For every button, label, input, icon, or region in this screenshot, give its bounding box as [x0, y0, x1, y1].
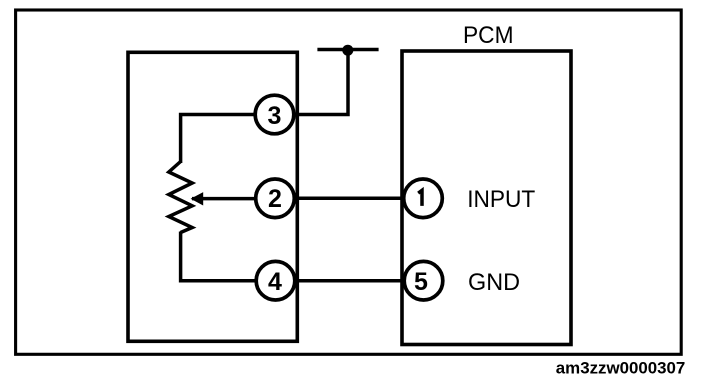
- svg-text:INPUT: INPUT: [467, 186, 535, 213]
- label INPUT: [467, 186, 535, 213]
- svg-text:2: 2: [268, 185, 282, 213]
- svg-text:am3zzw0000307: am3zzw0000307: [556, 359, 686, 378]
- pin 1: [404, 179, 443, 218]
- wire: pin 3 to potentiometer top: [181, 115, 275, 164]
- svg-text:GND: GND: [468, 269, 520, 296]
- caption am3zzw0000307: [556, 359, 686, 378]
- PCM box: [402, 51, 571, 345]
- svg-text:5: 5: [414, 268, 428, 296]
- wiper arrow: [191, 192, 204, 205]
- pin 2: [256, 179, 295, 218]
- pin 4: [256, 261, 295, 300]
- wire: wiper to pin 2: [192, 197, 275, 201]
- wire: pin 4 to pin 5: [275, 279, 424, 283]
- junction dot: [342, 45, 353, 56]
- wire: pin 3 to supply tap: [275, 50, 349, 115]
- svg-text:PCM: PCM: [463, 22, 514, 49]
- node: supply tap bar: [317, 48, 378, 52]
- potentiometer resistive element: [169, 162, 192, 233]
- pin 3: [255, 95, 294, 134]
- wire: pin 2 to pin 1: [275, 197, 423, 201]
- sensor box: [128, 52, 297, 341]
- label PCM: [463, 22, 514, 49]
- pin 5: [404, 261, 443, 300]
- svg-text:4: 4: [268, 268, 282, 296]
- svg-text:3: 3: [268, 102, 282, 130]
- wire: potentiometer bottom to pin 4: [181, 232, 275, 281]
- label GND: [468, 269, 520, 296]
